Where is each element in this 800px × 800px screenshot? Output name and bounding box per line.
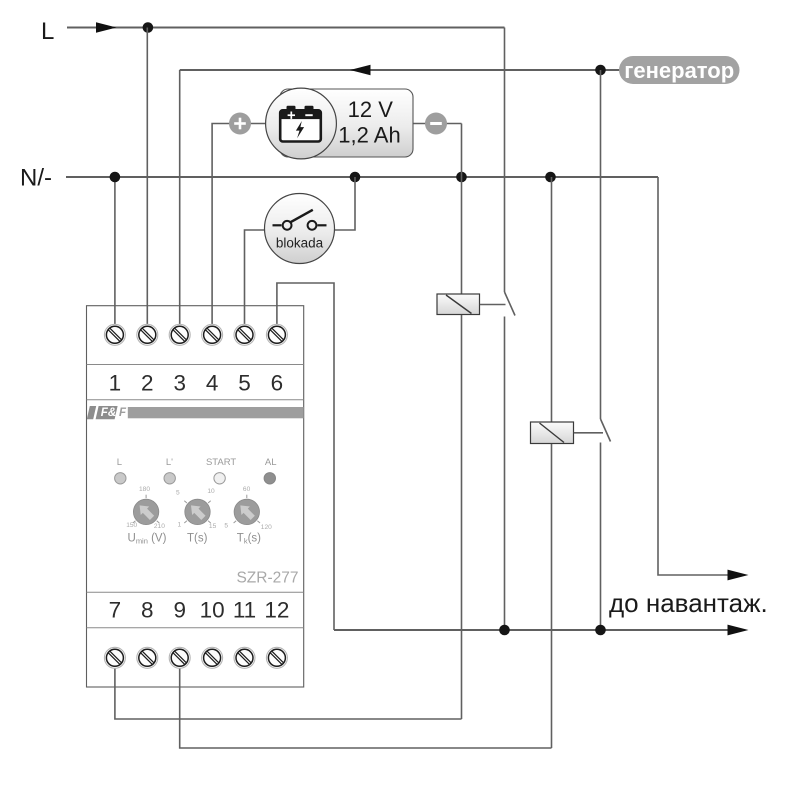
wire contact K2 to load line — [600, 443, 602, 631]
wire L line — [67, 27, 505, 29]
svg-text:F: F — [119, 407, 127, 419]
wire load line (lower) — [334, 629, 729, 631]
battery plus terminal circle — [229, 113, 251, 135]
arrow load upper — [728, 570, 749, 581]
terminal screw 3 — [169, 324, 190, 345]
wire contact K1 to load line — [504, 317, 506, 631]
label N/- — [20, 165, 52, 192]
wire N/- line — [66, 176, 658, 178]
node L junction dot — [143, 22, 154, 33]
knob T — [185, 499, 210, 524]
link relay K2 to contact — [574, 432, 603, 434]
svg-text:8: 8 — [141, 597, 154, 622]
svg-text:blokada: blokada — [276, 236, 324, 251]
wire terminal 7 to relay K1 coil — [115, 666, 462, 719]
knob Tk ticks and scale — [224, 486, 272, 531]
svg-text:5: 5 — [176, 490, 180, 497]
wire blokada right to N — [333, 177, 355, 230]
svg-text:10: 10 — [200, 597, 225, 622]
battery minus terminal circle — [425, 113, 447, 135]
LED L' — [164, 473, 175, 484]
svg-text:7: 7 — [109, 597, 122, 622]
svg-text:120: 120 — [261, 524, 272, 531]
contact K1 lever — [505, 292, 516, 316]
svg-text:Tk(s): Tk(s) — [237, 533, 261, 546]
arrow on generator wire (left) — [350, 65, 371, 76]
node dot contact K2 on load line — [595, 625, 606, 636]
svg-text:AL: AL — [265, 457, 277, 468]
svg-text:T(s): T(s) — [187, 533, 208, 545]
knob label Tk(s) — [237, 533, 261, 546]
wire battery minus lead — [413, 123, 462, 125]
svg-text:15: 15 — [209, 523, 217, 530]
wire blokada left to terminal 5 — [245, 230, 267, 327]
svg-text:12: 12 — [264, 597, 289, 622]
svg-text:150: 150 — [126, 522, 137, 529]
svg-text:6: 6 — [271, 371, 284, 396]
wire N to load (upper) — [658, 177, 729, 575]
svg-text:N/-: N/- — [20, 165, 52, 192]
wire battery plus to terminal 4 — [212, 124, 281, 328]
relay coil K2 — [531, 422, 574, 444]
label генератор pill — [619, 56, 740, 84]
terminal screw 5 — [234, 324, 255, 345]
wire L down to contact K1 — [504, 28, 506, 293]
terminal screw 12 — [266, 647, 287, 668]
LED L — [115, 473, 126, 484]
node generator junction dot — [595, 65, 606, 76]
LED START — [214, 473, 225, 484]
F&F logo stripe — [87, 406, 304, 419]
svg-text:SZR-277: SZR-277 — [236, 570, 298, 587]
svg-text:Umin (V): Umin (V) — [128, 533, 167, 546]
knob Umin ticks and scale — [126, 486, 165, 530]
svg-text:1,2 Ah: 1,2 Ah — [338, 123, 400, 148]
svg-text:60: 60 — [243, 486, 251, 493]
node dot contact K1 on load line — [499, 625, 510, 636]
knob label T(s) — [187, 533, 208, 545]
terminal screw 7 — [104, 647, 125, 668]
wire N to terminal 1 — [114, 177, 116, 327]
blokada circle — [265, 194, 335, 264]
svg-text:4: 4 — [206, 371, 219, 396]
battery icon circle — [266, 88, 337, 159]
relay coil K1 — [437, 294, 480, 315]
wire relay K1 coil vertical (battery minus / N to terminal 7 riser) — [461, 124, 463, 720]
terminal numbers 1-6 — [109, 371, 284, 396]
svg-text:START: START — [206, 457, 236, 468]
terminal screw 9 — [169, 647, 190, 668]
L label — [41, 18, 54, 45]
terminal screw 11 — [234, 647, 255, 668]
knob label Umin (V) — [128, 533, 167, 546]
svg-text:12 V: 12 V — [348, 97, 394, 122]
device section divider lines — [87, 365, 304, 628]
wire generator to terminal 3 — [179, 70, 181, 327]
terminal screw 6 — [266, 324, 287, 345]
svg-text:9: 9 — [173, 597, 186, 622]
wire generator down to contact K2 — [600, 70, 602, 419]
node N dot terminal 1 — [110, 172, 121, 183]
terminal screw 4 — [202, 324, 223, 345]
svg-text:F&: F& — [101, 407, 116, 419]
svg-text:210: 210 — [154, 523, 165, 530]
svg-text:1: 1 — [177, 522, 181, 529]
terminal screw 10 — [202, 647, 223, 668]
svg-text:L': L' — [166, 457, 173, 468]
svg-text:L: L — [41, 18, 54, 45]
blokada label — [276, 236, 324, 251]
node N dot relay K2 — [545, 172, 556, 183]
svg-text:L: L — [117, 457, 122, 468]
svg-text:180: 180 — [139, 486, 150, 493]
contact K2 lever — [601, 419, 611, 442]
knob Umin — [133, 499, 158, 524]
label SZR-277 — [236, 570, 298, 587]
knob T ticks and scale — [176, 488, 217, 530]
blokada switch icon — [273, 210, 327, 230]
terminal screw 2 — [137, 324, 158, 345]
arrow on L wire — [96, 22, 117, 33]
svg-text:10: 10 — [207, 488, 215, 495]
wire L to terminal 2 — [146, 28, 148, 328]
svg-text:3: 3 — [173, 371, 186, 396]
terminal screw 8 — [137, 647, 158, 668]
battery 12V box — [280, 89, 413, 157]
knob Tk — [234, 499, 259, 524]
terminal numbers 7-12 — [109, 597, 290, 622]
svg-text:генератор: генератор — [624, 58, 734, 83]
node N dot blokada — [350, 172, 361, 183]
wire terminal 9 to relay K2 coil — [180, 666, 552, 748]
wire relay K2 coil vertical (N to terminal 9 riser) — [551, 177, 553, 748]
svg-text:1: 1 — [109, 371, 122, 396]
link relay K1 to contact — [480, 304, 506, 306]
node N dot battery minus — [456, 172, 467, 183]
svg-text:5: 5 — [238, 371, 251, 396]
LED AL — [264, 473, 275, 484]
wire terminal 6 to load line — [277, 283, 334, 630]
svg-text:11: 11 — [233, 597, 256, 622]
svg-text:2: 2 — [141, 371, 154, 396]
wire generator line — [180, 69, 620, 71]
svg-text:до навантаж.: до навантаж. — [609, 588, 768, 618]
label до навантаж. — [609, 588, 768, 618]
device SZR-277 outer body — [87, 306, 304, 687]
arrow load lower — [728, 625, 749, 636]
terminal screw 1 — [104, 324, 125, 345]
battery icon — [280, 106, 321, 142]
LED labels — [117, 457, 277, 468]
svg-text:5: 5 — [224, 523, 228, 530]
